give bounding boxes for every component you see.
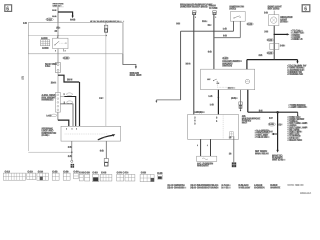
label bulb side: [280, 16, 293, 23]
svg-text:2-B: 2-B: [259, 54, 263, 57]
wire relay box right edge drop: [122, 23, 124, 53]
connector stack bottom: [104, 159, 108, 167]
svg-text:(15): (15): [21, 76, 24, 80]
svg-text:6: 6: [72, 129, 73, 131]
label from junction block A: [180, 3, 213, 8]
svg-text:C-70 C-73: C-70 C-73: [117, 171, 129, 174]
svg-text:1: 1: [207, 145, 208, 147]
svg-text:- TAIL BUZZ: - TAIL BUZZ: [255, 136, 268, 139]
legend group 3: [221, 184, 230, 189]
column switch box: [188, 115, 239, 140]
joint grid icon: [230, 132, 234, 137]
label J/B right: [242, 115, 261, 124]
connector stack feed B: [213, 11, 217, 15]
wire hot staircase: [58, 75, 80, 126]
svg-text:2: 2: [65, 50, 66, 52]
svg-text:G-GREEN: G-GREEN: [254, 187, 265, 190]
wire horn right pin: [239, 21, 241, 38]
svg-text:- DOME LT: - DOME LT: [291, 38, 303, 41]
label J/C(2): [194, 111, 205, 113]
wire ignition to bottom connector: [105, 141, 107, 158]
label 16-?: [202, 21, 207, 23]
svg-text:- PASSING SW: - PASSING SW: [287, 73, 303, 76]
svg-text:1: 1: [104, 137, 105, 139]
svg-text:8-Y: 8-Y: [259, 110, 263, 113]
legend group 1: [167, 184, 186, 189]
wire horn left pin: [233, 21, 235, 31]
svg-text:UP IS CIG. UNIT (SQUIB CKT) B: UP IS CIG. UNIT (SQUIB CKT) B: [90, 21, 119, 23]
svg-text:1: 1: [215, 17, 216, 19]
label ignition element: [42, 94, 57, 101]
wire A vertical: [193, 15, 195, 115]
label rheostat: [197, 162, 213, 167]
label tick b: [229, 153, 232, 155]
wire hazard out mid with connector: [239, 90, 242, 112]
svg-text:20-Y: 20-Y: [51, 82, 56, 85]
label 2-B lower: [68, 156, 72, 158]
label 16-B upper: [52, 9, 57, 10]
svg-text:C-05: C-05: [101, 171, 107, 174]
label SRS unit note: [123, 21, 124, 22]
svg-text:C-22: C-22: [47, 18, 53, 21]
hazard lamp: [245, 79, 249, 83]
connector C-20 oval: [63, 57, 70, 60]
label to column switch list: [287, 65, 307, 76]
ignition switch element: [56, 93, 61, 113]
connector table C-30: [73, 171, 79, 179]
svg-text:C-28: C-28: [85, 171, 91, 174]
label flasher dest: [272, 154, 285, 161]
page number: [300, 193, 311, 195]
svg-text:DIAG UNIT: DIAG UNIT: [130, 74, 142, 77]
svg-text:RHEOSTAT: RHEOSTAT: [197, 164, 210, 167]
ignition switch assembly box: [61, 126, 121, 141]
wire rheostat left: [200, 139, 202, 156]
label A-05: [70, 19, 75, 21]
svg-text:C-83: C-83: [141, 171, 147, 174]
label 16-Y: [185, 63, 190, 65]
wire hazard feed right: [246, 60, 248, 70]
svg-text:L-B: L-B: [210, 104, 214, 107]
label 16-B lower: [52, 16, 57, 17]
legend group 4: [238, 184, 251, 189]
relay pin stub 2: [55, 49, 66, 53]
node 1-B label: [23, 22, 27, 24]
label L-0 b: [210, 104, 214, 106]
connector C-23 right oval: [267, 51, 274, 54]
joint connector J-06: [270, 43, 285, 49]
connector table C-19: [37, 171, 49, 181]
svg-text:1: 1: [195, 17, 196, 19]
label fuse: [45, 63, 57, 68]
svg-text:SWITCH): SWITCH): [222, 65, 232, 68]
svg-text:6: 6: [6, 6, 9, 12]
label 8-Y rail: [259, 110, 263, 112]
wire rail R2: [214, 37, 240, 39]
wire B vertical: [213, 15, 215, 69]
svg-text:W-WHITE: W-WHITE: [270, 187, 281, 190]
svg-text:7.5A: 7.5A: [45, 65, 50, 68]
connector table C-13: [157, 172, 163, 179]
svg-text:(ACC): (ACC): [229, 8, 236, 11]
connector table C-15: [27, 171, 36, 180]
arrow stub left: [271, 133, 277, 135]
wire main feed top: [57, 7, 59, 22]
svg-text:(2) (3): (2) (3): [228, 88, 233, 90]
svg-text:<J/C(2)>: <J/C(2)>: [194, 111, 204, 114]
svg-text:A-05X: A-05X: [42, 47, 49, 50]
pin labels rheostat wires: [197, 145, 198, 146]
legend group 6: [270, 184, 281, 189]
label right bullet column: [287, 104, 307, 142]
svg-text:C-22: C-22: [247, 23, 253, 26]
svg-text:5: 5: [197, 145, 198, 147]
connector table C-12: [3, 171, 25, 181]
svg-text:6-B: 6-B: [223, 35, 227, 38]
connector stack feed A: [192, 11, 196, 15]
indicator label top: [268, 5, 283, 10]
label 6-B: [100, 150, 104, 152]
hazard switch label block: [222, 57, 242, 68]
svg-text:8-B: 8-B: [176, 22, 180, 25]
label 2-B rail: [259, 55, 263, 57]
label 20-Y hot: [67, 79, 73, 81]
relay coil box: [53, 37, 68, 49]
svg-text:2: 2: [55, 50, 56, 52]
connector table C-73: [125, 174, 135, 181]
svg-text:MAIN RELAY: MAIN RELAY: [255, 152, 269, 155]
connector table C-05: [100, 171, 112, 181]
arrow to tail lamp relay: [273, 33, 289, 35]
svg-text:16-B: 16-B: [52, 10, 57, 12]
label 6-? R2: [223, 35, 227, 37]
svg-text:(1): (1): [279, 123, 282, 126]
wire left bus: [28, 23, 72, 153]
svg-text:6-B: 6-B: [100, 150, 104, 153]
svg-text:C-06: C-06: [269, 123, 275, 126]
svg-text:2: 2: [66, 129, 67, 131]
ground connector grid: [71, 164, 75, 168]
svg-text:Y-YELLOW: Y-YELLOW: [238, 187, 251, 190]
wire inner rail: [28, 35, 107, 36]
svg-text:(C-19): (C-19): [42, 134, 49, 137]
rheostat box: [197, 156, 217, 161]
label 20-Y left: [51, 82, 56, 84]
svg-text:C-20: C-20: [63, 57, 69, 60]
wire left drop turn: [155, 100, 180, 103]
svg-text:- LAMP CIRCUIT: - LAMP CIRCUIT: [288, 106, 306, 109]
connector table C-83: [140, 171, 154, 181]
svg-text:20-Y: 20-Y: [67, 78, 73, 81]
connector table C-31: [79, 171, 85, 181]
stub wire upper hot: [60, 93, 75, 126]
svg-text:8-Y: 8-Y: [269, 131, 273, 134]
legend group 2: [190, 184, 218, 189]
connector table C-23: [52, 171, 59, 181]
label tick a: [229, 137, 232, 139]
label mid bullet column: [255, 130, 270, 139]
svg-text:C-23: C-23: [267, 52, 273, 55]
label (B) pins: [56, 27, 60, 29]
connector table C-29: [63, 171, 70, 181]
page marker box top-right: [302, 5, 310, 13]
svg-text:UNIT (C-0): UNIT (C-0): [272, 159, 283, 162]
svg-text:J-06: J-06: [280, 44, 285, 47]
svg-text:B FUSE: B FUSE: [209, 7, 218, 10]
svg-text:JUNCTION BLOCK (No.7): JUNCTION BLOCK (No.7): [180, 6, 207, 9]
label above flasher text: [255, 150, 269, 155]
svg-text:6-B: 6-B: [208, 51, 212, 54]
label 2-B drop: [231, 97, 238, 99]
label L-0: [223, 28, 227, 30]
connector C-22 oval horn: [247, 23, 254, 26]
relay box A-05 outline: [28, 23, 123, 54]
connector C-22 right oval: [267, 38, 274, 41]
pin marks feeds: [195, 17, 196, 18]
svg-text:- RELAY BOX: - RELAY BOX: [287, 139, 302, 142]
wire bulb down: [273, 26, 275, 60]
svg-text:(C-05): (C-05): [280, 21, 287, 24]
connector table C-03: [92, 171, 99, 181]
stub wire lower: [60, 101, 73, 126]
svg-text:(2): B-CHASSIS: (2): B-CHASSIS: [167, 187, 184, 190]
svg-text:6: 6: [304, 7, 307, 13]
svg-text:LINK (2): LINK (2): [53, 5, 60, 7]
horn switch box: [231, 12, 246, 22]
horn switch label: [229, 5, 244, 10]
indicator bulb box: [269, 11, 279, 26]
wire relay to fuse: [57, 49, 59, 63]
legend group 5: [254, 184, 265, 189]
label 8-Y t1: [269, 117, 273, 119]
svg-text:L-B: L-B: [209, 95, 213, 98]
svg-text:16-L: 16-L: [202, 20, 207, 23]
rail to column arrow: [247, 60, 299, 64]
wire joint to ground: [233, 136, 235, 162]
svg-text:HARNESS): HARNESS): [42, 99, 54, 102]
connector table C-28: [85, 171, 91, 181]
svg-text:(2-B): (2-B): [231, 97, 236, 100]
svg-text:C-03: C-03: [92, 171, 98, 174]
svg-text:2-B: 2-B: [264, 12, 268, 15]
wire rheostat right: [210, 139, 212, 156]
connector oval L-03: [46, 114, 56, 118]
label SRS arrow: [130, 72, 142, 77]
svg-text:3: 3: [76, 129, 77, 131]
svg-text:16-B: 16-B: [52, 16, 57, 18]
svg-text:No.7: No.7: [242, 122, 248, 125]
svg-text:BOX (12V): BOX (12V): [268, 8, 279, 11]
svg-text:16-Y: 16-Y: [185, 63, 190, 66]
svg-text:2-B: 2-B: [68, 146, 72, 149]
label 16-B srs wire: [99, 97, 104, 100]
wire hazard out left: [217, 90, 219, 115]
label 2-B upper: [68, 146, 72, 148]
branch arrow to A-05: [58, 12, 74, 18]
label 8-Y t3: [269, 131, 273, 133]
label 8-?: [176, 23, 180, 25]
fuse F9: [55, 63, 60, 73]
svg-text:2-B: 2-B: [264, 30, 268, 33]
svg-text:(4): B-CHASSIS GROUND: (4): B-CHASSIS GROUND: [190, 187, 217, 190]
svg-text:NOTE: SEE P.: NOTE: SEE P.: [287, 184, 302, 187]
ground eyelet: [71, 160, 73, 162]
svg-text:8-Y: 8-Y: [269, 117, 273, 120]
label 6-?: [208, 24, 212, 26]
svg-text:5: Y-21: 5: Y-21: [221, 187, 229, 190]
label FROM FUSIBLE LINK: [53, 3, 65, 7]
label 6-B wireB: [208, 51, 212, 53]
label L-0 a: [209, 95, 213, 97]
relay inset connector icon: [41, 37, 50, 50]
svg-text:C-22: C-22: [267, 39, 273, 42]
label tail lamp list: [291, 30, 304, 41]
connector C-22 oval: [46, 18, 54, 21]
legend group 7: [287, 184, 303, 187]
wire SRS branch vertical: [105, 23, 107, 127]
label from junction block B: [209, 5, 218, 10]
wire feed into relay: [57, 23, 59, 39]
hazard switch box: [201, 69, 255, 90]
label 2?-B: [264, 12, 268, 14]
connector table C-70: [117, 171, 129, 181]
svg-text:A-05: A-05: [70, 19, 76, 22]
ground grid right: [232, 162, 236, 167]
connector C-06 oval: [268, 123, 282, 127]
wire ground drop: [71, 141, 72, 160]
svg-text:2-B: 2-B: [68, 155, 72, 158]
wire fuse down: [57, 72, 59, 92]
connector stack on SRS wire: [104, 25, 107, 32]
label 2-B mid: [264, 31, 268, 33]
wire hazard out right hot: [248, 90, 299, 116]
wire element to key box: [58, 112, 69, 126]
wire flasher drop arrow: [276, 111, 278, 152]
svg-text:MB90-10-5: MB90-10-5: [300, 192, 312, 195]
svg-text:1-B: 1-B: [23, 22, 27, 25]
svg-text:L-B: L-B: [223, 28, 227, 31]
SRS arrow branch: [123, 54, 137, 69]
label ignition assembly: [42, 127, 57, 137]
wire rail R1: [181, 31, 234, 100]
page marker box top-left: [5, 5, 12, 13]
